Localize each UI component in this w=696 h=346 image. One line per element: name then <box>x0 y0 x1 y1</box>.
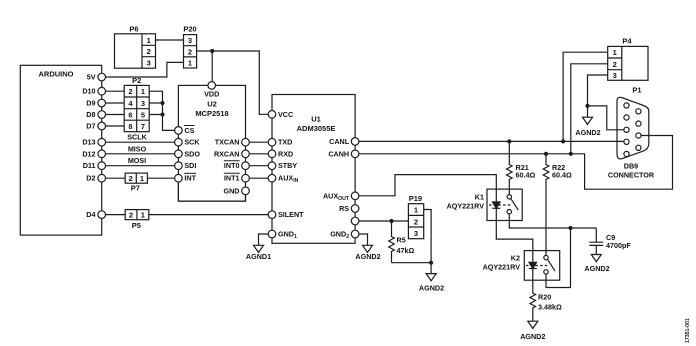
svg-text:CANH: CANH <box>328 149 349 158</box>
svg-text:P6: P6 <box>129 25 138 34</box>
junction CANL-R21 <box>507 139 511 143</box>
wire K1 output to C9 node <box>509 214 596 228</box>
wire D7 to P2 pin8 <box>102 125 125 127</box>
svg-text:D12: D12 <box>82 149 95 158</box>
junction CANH-P4pin2 <box>569 152 573 156</box>
svg-text:MOSI: MOSI <box>128 156 146 165</box>
wire AGND2 node down <box>587 106 589 117</box>
svg-text:MISO: MISO <box>128 144 147 153</box>
wire D9 to P2 pin4 <box>102 102 125 104</box>
module ARDUINO box <box>20 65 101 235</box>
svg-text:17351-001: 17351-001 <box>685 318 691 343</box>
wire INT to GND loop <box>178 182 245 201</box>
wire K1 cathode to K2 anode <box>496 221 533 251</box>
wire AUXOUT to K1 LED <box>355 175 496 196</box>
resistor R5 <box>389 221 415 263</box>
svg-text:INT0: INT0 <box>224 161 240 170</box>
capacitor C9 <box>589 228 631 255</box>
connector P6 <box>115 25 156 69</box>
junction CANL-P4pin1 <box>561 139 565 143</box>
svg-text:AQY221RV: AQY221RV <box>483 262 521 271</box>
wire P2 pins 1-3-5 bus to CS <box>149 91 178 130</box>
svg-text:GND1: GND1 <box>278 230 297 241</box>
wire GND1 to AGND1 <box>259 234 273 245</box>
svg-text:3: 3 <box>613 71 617 80</box>
svg-text:AGND2: AGND2 <box>584 264 609 273</box>
ground AGND2 under U1 <box>355 245 380 260</box>
connector P2 <box>124 76 149 132</box>
IC U1 ADM3055E <box>268 95 359 244</box>
svg-text:R20: R20 <box>538 293 551 302</box>
svg-text:P2: P2 <box>132 76 141 85</box>
svg-text:D2: D2 <box>86 174 95 183</box>
svg-text:RXCAN: RXCAN <box>214 149 240 158</box>
svg-text:INT: INT <box>184 174 196 183</box>
junction VDD node <box>210 49 214 53</box>
svg-text:4: 4 <box>128 99 133 108</box>
wire INT0 to STBY <box>246 165 273 167</box>
wire D13 to SCK <box>102 141 179 143</box>
svg-text:MCP2518: MCP2518 <box>195 109 228 118</box>
svg-text:SILENT: SILENT <box>278 210 304 219</box>
svg-text:60.4Ω: 60.4Ω <box>516 170 536 179</box>
svg-text:1: 1 <box>414 206 418 215</box>
svg-text:4700pF: 4700pF <box>606 241 631 250</box>
svg-text:3: 3 <box>141 99 145 108</box>
svg-text:1: 1 <box>147 36 151 45</box>
svg-text:D8: D8 <box>86 110 95 119</box>
svg-text:AGND1: AGND1 <box>246 252 271 261</box>
wire GND2 to AGND2 <box>355 234 367 245</box>
resistor R21 <box>506 141 535 194</box>
svg-text:VCC: VCC <box>278 110 293 119</box>
svg-text:2: 2 <box>129 174 133 183</box>
svg-text:AUXOUT: AUXOUT <box>323 191 350 202</box>
wire P20 pin2 to VDD and VCC <box>197 51 272 114</box>
ARDUINO labels and pins <box>39 70 106 219</box>
svg-text:3.48kΩ: 3.48kΩ <box>538 303 562 312</box>
IC U2 MCP2518 <box>175 82 250 202</box>
svg-text:AGND2: AGND2 <box>575 128 600 137</box>
wire P6 pin1 to P20 pin3 <box>156 39 184 41</box>
wire INT1 to AUXIN <box>246 177 273 179</box>
relay K1 AQY221RV <box>447 189 523 220</box>
wire P4 pin2 to CANH <box>571 64 608 154</box>
svg-text:5V: 5V <box>87 73 96 82</box>
resistor R20 <box>530 280 562 321</box>
svg-text:P1: P1 <box>632 86 641 95</box>
svg-text:1: 1 <box>188 59 192 68</box>
wire 5V to P20 pin1 <box>102 62 184 77</box>
wire R5 bottom to AGND junction <box>392 263 432 274</box>
svg-text:D4: D4 <box>86 210 95 219</box>
svg-text:2: 2 <box>414 217 418 226</box>
svg-text:P20: P20 <box>183 25 196 34</box>
svg-text:TXD: TXD <box>278 138 292 147</box>
relay K2 AQY221RV <box>483 251 560 281</box>
svg-text:P19: P19 <box>409 194 422 203</box>
wire D11 to SDI <box>102 165 179 167</box>
ground AGND2 under C9 <box>584 255 609 274</box>
svg-text:1: 1 <box>141 211 145 220</box>
svg-text:7: 7 <box>141 122 145 131</box>
svg-text:DB9: DB9 <box>624 162 638 171</box>
svg-text:1: 1 <box>141 87 145 96</box>
svg-text:CONNECTOR: CONNECTOR <box>608 171 655 180</box>
junction AGND-R5-P19 <box>429 261 433 265</box>
wire D12 to SDO <box>102 153 179 155</box>
svg-text:1: 1 <box>140 174 144 183</box>
svg-text:GND2: GND2 <box>330 230 349 241</box>
svg-text:3: 3 <box>188 36 192 45</box>
wire P4 pin1 to CANL <box>563 52 608 141</box>
svg-text:STBY: STBY <box>278 161 297 170</box>
svg-text:AUXIN: AUXIN <box>278 174 299 185</box>
svg-text:SCLK: SCLK <box>127 133 147 142</box>
net label SCLK <box>127 133 147 142</box>
svg-text:5: 5 <box>141 111 145 120</box>
svg-text:P4: P4 <box>622 37 632 46</box>
ground AGND1 <box>246 245 271 260</box>
connector P5 <box>125 210 149 231</box>
connector P7 <box>125 173 147 192</box>
svg-text:U1: U1 <box>311 115 321 124</box>
junction CANH-R22 <box>544 152 548 156</box>
svg-text:VDD: VDD <box>204 90 219 99</box>
wire RS row pin to P19 pin2 <box>355 220 408 222</box>
svg-text:D10: D10 <box>82 87 95 96</box>
svg-text:GND: GND <box>224 186 240 195</box>
wire CANH net <box>355 136 672 190</box>
svg-text:INT1: INT1 <box>224 174 240 183</box>
ground AGND2 under R20 <box>520 321 545 341</box>
wire TXCAN to TXD <box>246 141 273 143</box>
svg-text:6: 6 <box>128 111 132 120</box>
connector P1 DB9 <box>608 86 655 180</box>
net label MOSI <box>128 156 146 165</box>
ground AGND2 near P4 <box>575 117 600 137</box>
svg-text:8: 8 <box>128 122 132 131</box>
ground AGND2 under P19 <box>419 274 444 293</box>
svg-text:2: 2 <box>613 60 617 69</box>
net label MISO <box>128 144 147 153</box>
svg-text:1: 1 <box>613 48 617 57</box>
svg-text:47kΩ: 47kΩ <box>397 246 415 255</box>
svg-text:ADM3055E: ADM3055E <box>297 124 336 133</box>
wire D10 to P2 pin2 <box>102 90 125 92</box>
svg-text:P5: P5 <box>132 221 141 230</box>
svg-text:RS: RS <box>339 204 349 213</box>
svg-text:SDI: SDI <box>184 161 196 170</box>
svg-text:2: 2 <box>188 47 192 56</box>
junction R5 top <box>389 219 393 223</box>
svg-text:RXD: RXD <box>278 149 293 158</box>
svg-text:P7: P7 <box>131 183 140 192</box>
svg-text:AGND2: AGND2 <box>520 332 545 341</box>
junction K1-K2-C9 node <box>568 226 572 230</box>
wire CANL net <box>355 140 626 142</box>
svg-text:2: 2 <box>129 211 133 220</box>
svg-text:CS: CS <box>184 126 194 135</box>
junction P2 bus node A <box>160 101 164 117</box>
wire AGND2 node to DB9 pin <box>588 106 627 130</box>
svg-text:2: 2 <box>128 87 132 96</box>
svg-text:SCK: SCK <box>184 138 200 147</box>
svg-text:D9: D9 <box>86 99 95 108</box>
connector P20 <box>183 25 196 69</box>
svg-text:CANL: CANL <box>329 137 350 146</box>
connector P19 <box>408 194 423 239</box>
svg-text:TXCAN: TXCAN <box>215 138 240 147</box>
svg-text:U2: U2 <box>207 100 217 109</box>
svg-text:R5: R5 <box>397 236 406 245</box>
svg-text:AGND2: AGND2 <box>419 284 444 293</box>
wire K2 output to node <box>546 228 571 288</box>
wire P4 pin3 to AGND2 node <box>588 75 608 106</box>
svg-text:K1: K1 <box>475 193 484 202</box>
junction AGND2-P4 node <box>585 104 589 108</box>
svg-text:D7: D7 <box>86 122 95 131</box>
wire RXCAN to RXD <box>246 153 273 155</box>
resistor R22 <box>543 154 572 256</box>
svg-text:D13: D13 <box>82 138 95 147</box>
wire D8 to P2 pin6 <box>102 114 125 116</box>
figure number <box>685 318 691 343</box>
svg-text:D11: D11 <box>83 161 96 170</box>
svg-text:SDO: SDO <box>184 149 200 158</box>
svg-text:AGND2: AGND2 <box>355 252 380 261</box>
wire D4 to SILENT via P5 <box>102 214 272 216</box>
svg-text:2: 2 <box>147 47 151 56</box>
connector P4 <box>608 37 648 81</box>
wire P19 pin1 to AGND2 <box>424 210 431 263</box>
svg-text:ARDUINO: ARDUINO <box>39 70 74 79</box>
svg-text:3: 3 <box>147 59 151 68</box>
svg-text:AQY221RV: AQY221RV <box>447 202 485 211</box>
svg-text:60.4Ω: 60.4Ω <box>552 170 572 179</box>
wire D2 to INT via P7 <box>102 177 179 179</box>
svg-text:3: 3 <box>414 229 418 238</box>
